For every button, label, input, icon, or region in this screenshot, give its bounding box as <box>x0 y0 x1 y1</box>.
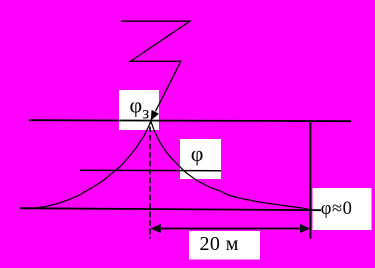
svg-text:φ: φ <box>191 141 204 166</box>
lightning arrowhead at strike point <box>151 110 159 121</box>
zero potential baseline <box>20 208 321 210</box>
dimension left arrowhead <box>151 224 161 233</box>
intermediate potential level line <box>80 169 221 172</box>
svg-text:φ≈0: φ≈0 <box>321 199 353 219</box>
dashed vertical line under strike point <box>149 122 151 238</box>
label box phi~0 (white) <box>313 188 372 230</box>
label box phi-z (white) <box>119 90 159 130</box>
label box phi (white) <box>180 139 221 179</box>
svg-text:20 м: 20 м <box>200 233 239 255</box>
ground line <box>29 120 351 121</box>
right vertical reference line <box>309 120 311 239</box>
dimension line 20 m <box>158 228 302 230</box>
label box 20 m (white) <box>189 231 260 260</box>
dimension right arrowhead <box>300 224 310 233</box>
lightning bolt polyline <box>121 21 190 111</box>
potential distribution curve <box>24 122 308 210</box>
